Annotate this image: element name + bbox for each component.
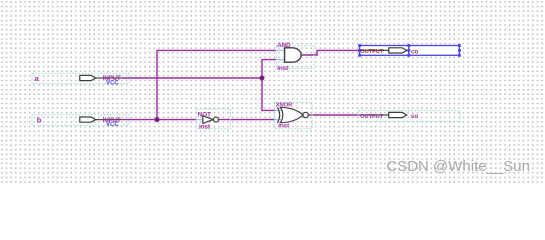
input pin a	[32, 73, 129, 86]
NOT bubble	[214, 117, 219, 122]
svg-text:inst: inst	[277, 65, 288, 72]
svg-text:so: so	[411, 113, 419, 120]
XNOR back arc	[277, 107, 279, 122]
wire: a branch down to XNOR top input	[262, 78, 275, 110]
wire: net b horizontal to NOT	[122, 119, 196, 121]
NOT triangle	[203, 116, 213, 124]
XNOR input stubs	[275, 110, 282, 119]
wire: net a horizontal	[122, 77, 262, 79]
AND2 gate inst	[276, 42, 314, 72]
wire: XNOR output to pin so	[308, 114, 361, 116]
wire: a branch up to AND bottom input	[262, 60, 276, 78]
svg-text:co: co	[411, 48, 419, 55]
wire: b branch up to AND top input	[157, 50, 276, 119]
junction on net b	[155, 117, 160, 122]
svg-text:OUTPUT: OUTPUT	[360, 114, 384, 120]
wire: AND output to pin co	[301, 50, 361, 55]
output pin so	[358, 111, 460, 122]
svg-text:inst: inst	[278, 123, 289, 130]
svg-text:CSDN @White__Sun: CSDN @White__Sun	[386, 158, 530, 175]
wire: NOT output to XNOR lower input	[218, 119, 274, 121]
XNOR gate inst	[274, 102, 312, 129]
output pin co (selected)	[358, 44, 461, 57]
NOT gate inst	[196, 109, 230, 131]
XNOR body	[280, 107, 303, 122]
AND input stubs	[276, 50, 285, 59]
selection handles	[358, 44, 461, 57]
svg-text:inst: inst	[199, 124, 210, 131]
AND body	[285, 48, 302, 62]
svg-text:OUTPUT: OUTPUT	[360, 49, 384, 55]
svg-text:b: b	[37, 116, 42, 125]
junction on net a	[260, 76, 265, 81]
input pin b	[32, 115, 129, 128]
svg-text:VCC: VCC	[106, 122, 119, 128]
XNOR bubble	[303, 112, 308, 117]
svg-text:VCC: VCC	[106, 80, 119, 86]
NOT input stub	[196, 119, 203, 121]
